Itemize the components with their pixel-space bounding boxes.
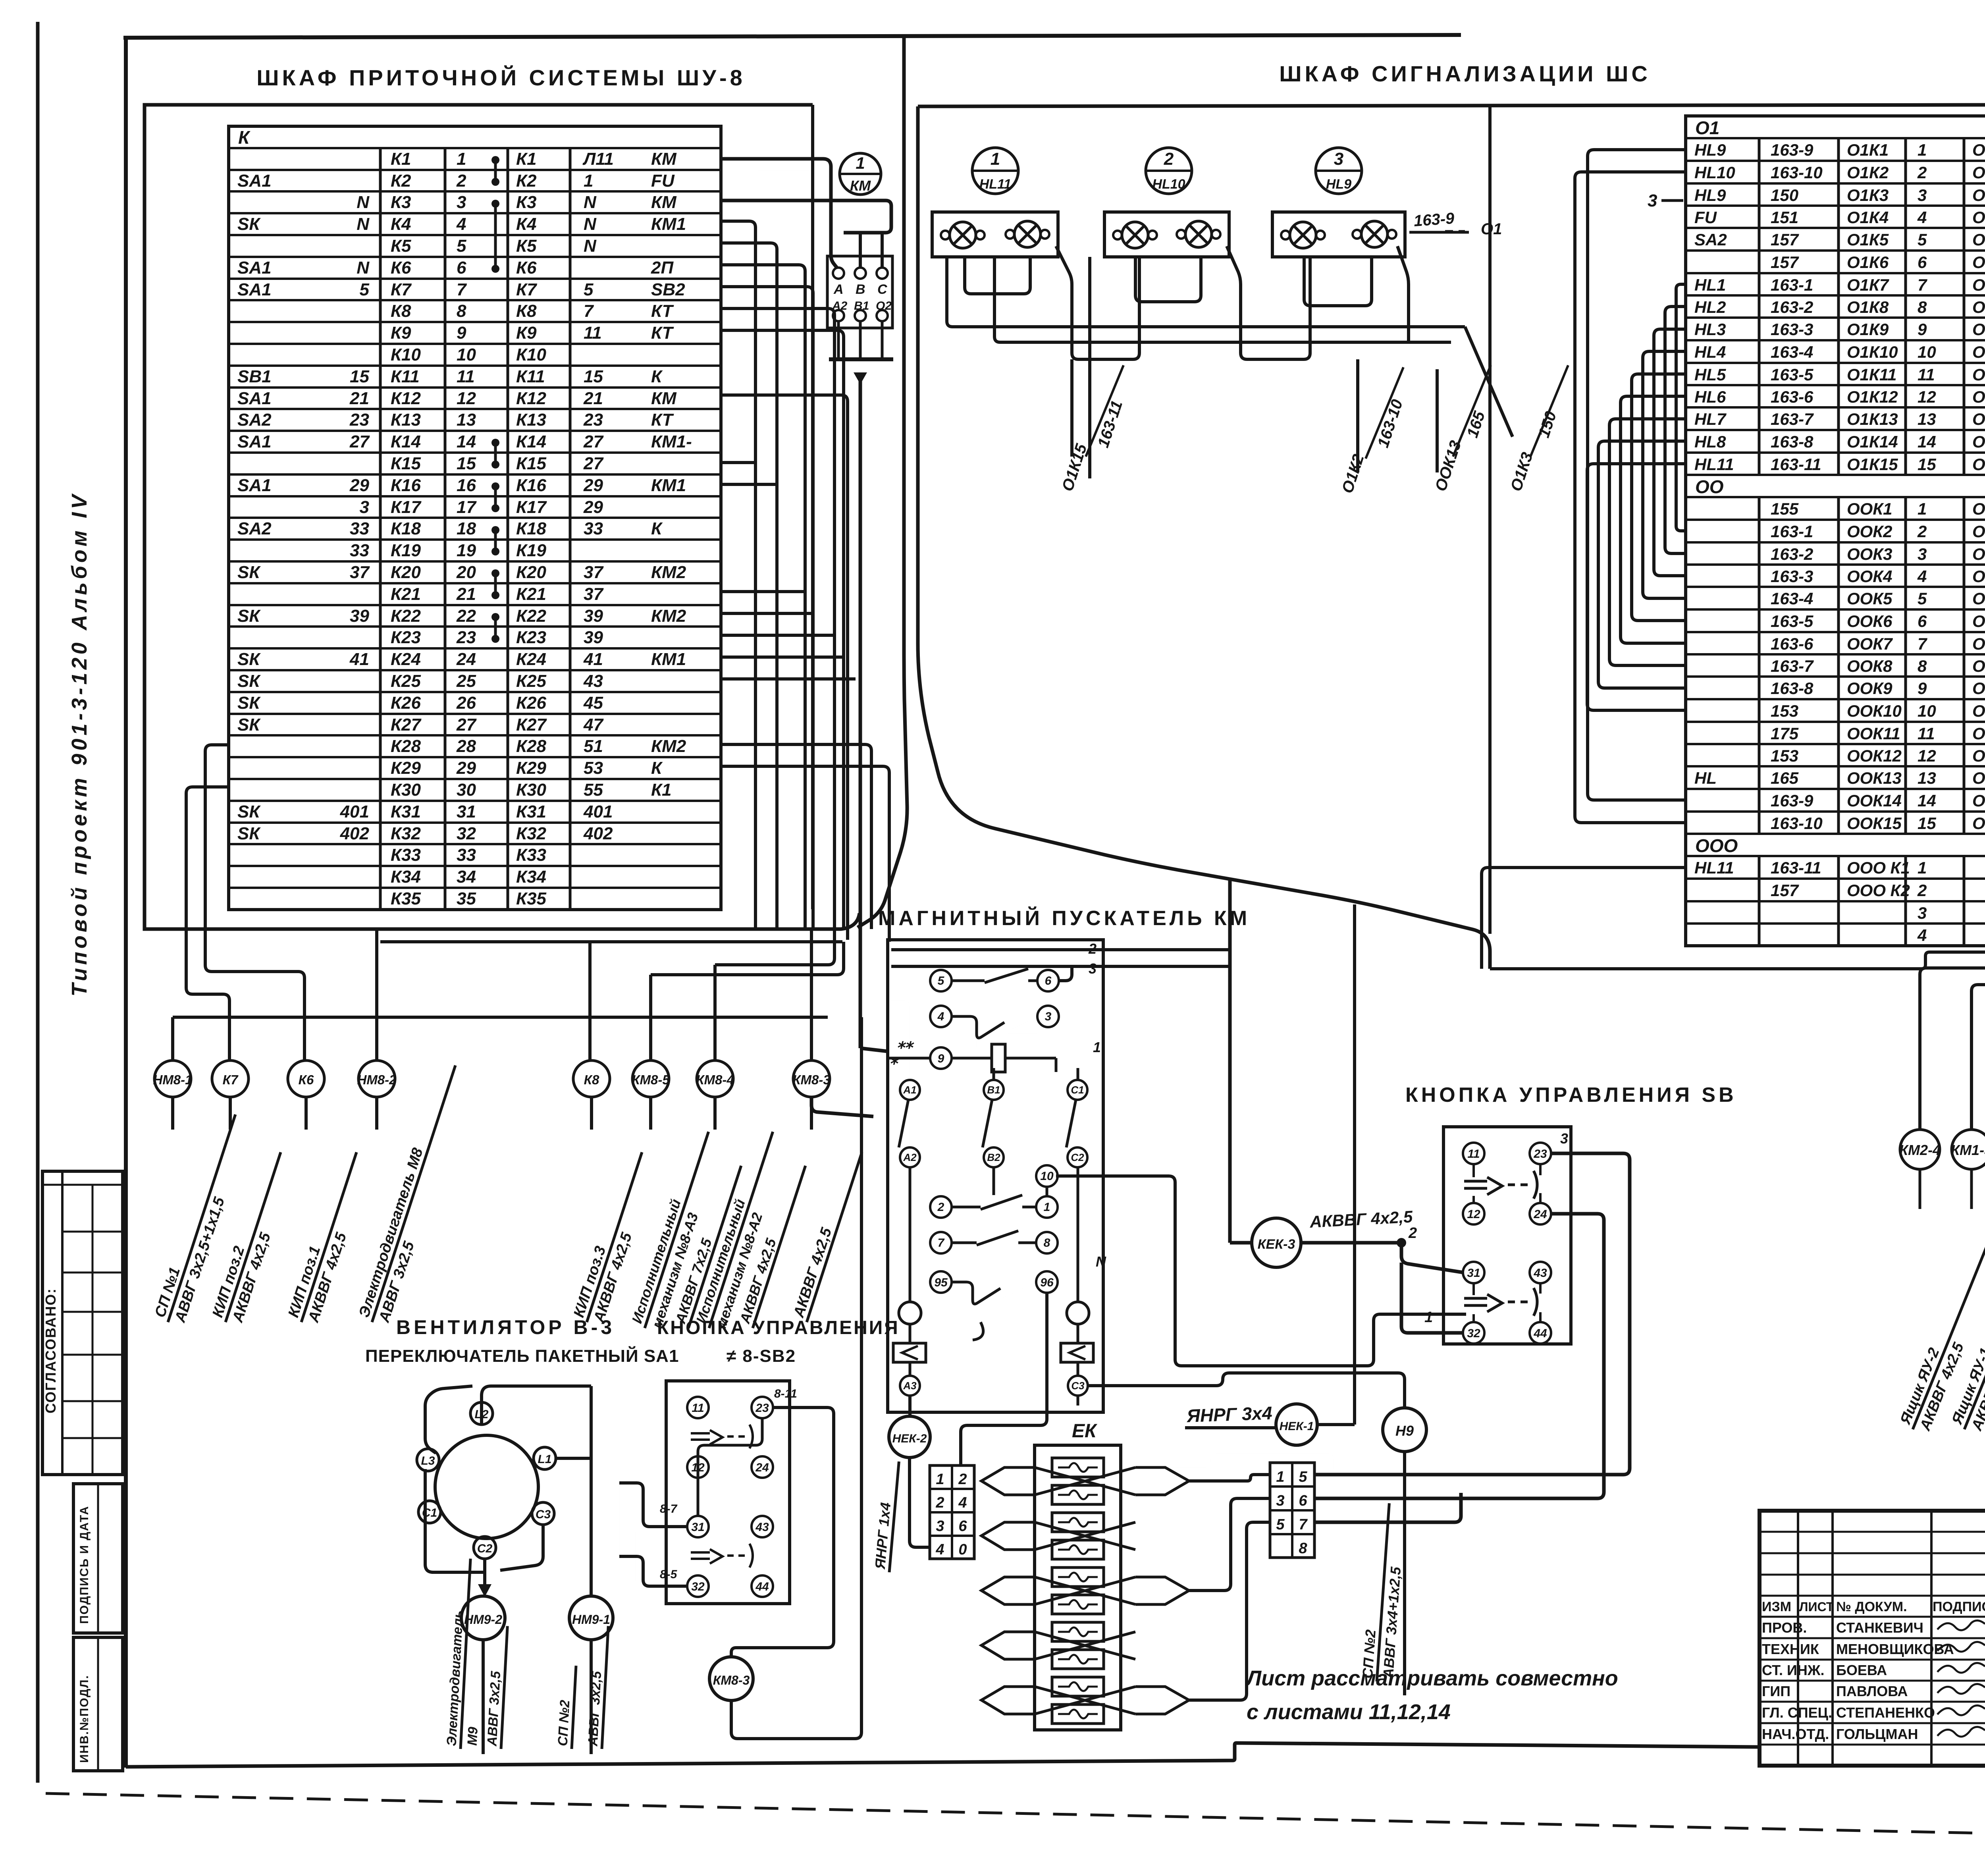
svg-text:15: 15 xyxy=(584,367,603,386)
svg-text:5: 5 xyxy=(360,280,370,299)
svg-text:SК: SК xyxy=(237,606,261,626)
svg-text:МЕНОВЩИКОВА: МЕНОВЩИКОВА xyxy=(1836,1641,1954,1657)
svg-text:ООК11: ООК11 xyxy=(1972,724,1985,743)
svg-text:О1: О1 xyxy=(1481,220,1502,238)
svg-text:К2: К2 xyxy=(516,171,537,191)
svg-text:К1: К1 xyxy=(516,149,537,169)
title KNOPKA UPRAVLENIYA SB xyxy=(1405,1084,1737,1107)
jumper links K-table xyxy=(491,156,499,643)
svg-text:8-7: 8-7 xyxy=(660,1502,678,1515)
svg-text:ООО К1: ООО К1 xyxy=(1847,858,1910,877)
svg-text:402: 402 xyxy=(340,824,370,843)
svg-text:К: К xyxy=(651,367,663,386)
svg-text:163-6: 163-6 xyxy=(1771,634,1813,653)
svg-text:3: 3 xyxy=(1045,1010,1052,1023)
svg-text:К9: К9 xyxy=(391,323,411,343)
svg-text:Л11: Л11 xyxy=(582,149,614,169)
svg-text:О1К1: О1К1 xyxy=(1847,141,1889,159)
svg-text:157: 157 xyxy=(1771,253,1799,272)
svg-text:ООК8: ООК8 xyxy=(1847,657,1892,675)
svg-text:О1К11: О1К11 xyxy=(1972,365,1985,384)
title MAGNITNY PUSKATEL KM xyxy=(878,906,1250,930)
svg-text:163-2: 163-2 xyxy=(1771,545,1813,563)
svg-text:95: 95 xyxy=(934,1276,948,1289)
svg-text:163-8: 163-8 xyxy=(1771,679,1813,698)
svg-text:0: 0 xyxy=(958,1541,967,1558)
svg-text:4: 4 xyxy=(1917,567,1927,586)
wires starter to SB button xyxy=(1047,1176,1466,1408)
svg-text:К27: К27 xyxy=(516,715,547,735)
svg-text:К18: К18 xyxy=(516,519,547,538)
svg-text:29: 29 xyxy=(583,476,603,495)
svg-text:30: 30 xyxy=(457,780,476,800)
svg-text:О1К2: О1К2 xyxy=(1847,163,1889,182)
svg-text:23: 23 xyxy=(456,628,476,647)
svg-text:К16: К16 xyxy=(391,476,421,495)
svg-text:С2: С2 xyxy=(1071,1151,1084,1163)
svg-text:12: 12 xyxy=(1918,388,1936,406)
svg-text:8: 8 xyxy=(1299,1540,1307,1557)
svg-text:О1К8: О1К8 xyxy=(1972,298,1985,316)
svg-text:150: 150 xyxy=(1771,186,1798,204)
svg-text:3: 3 xyxy=(1918,186,1927,204)
cable circle КМ8-4 with label Исполнительный механизм №8-А2 xyxy=(692,1060,806,1334)
svg-text:N: N xyxy=(357,258,370,278)
svg-text:К29: К29 xyxy=(391,758,421,778)
svg-text:N: N xyxy=(357,193,370,212)
svg-text:N: N xyxy=(584,236,597,256)
svg-text:ООК13: ООК13 xyxy=(1972,769,1985,787)
svg-text:15: 15 xyxy=(1918,814,1936,833)
cable circle N9 xyxy=(1359,1408,1426,1695)
header SHKAF SIGNALIZACII SHS xyxy=(1279,61,1651,86)
label 163-9 O1 at lamp3 xyxy=(1409,210,1502,238)
svg-text:17: 17 xyxy=(457,497,477,517)
svg-text:4: 4 xyxy=(456,214,466,234)
svg-text:В2: В2 xyxy=(987,1151,1000,1163)
svg-text:К30: К30 xyxy=(516,780,547,800)
svg-text:К1: К1 xyxy=(651,780,672,800)
svg-text:23: 23 xyxy=(755,1402,769,1415)
svg-text:163-9: 163-9 xyxy=(1413,210,1455,230)
svg-text:11: 11 xyxy=(1467,1147,1480,1161)
indicator lamp assembly 3/HL9 xyxy=(1272,148,1405,257)
svg-text:35: 35 xyxy=(457,889,476,908)
wire 96 to EK input block xyxy=(961,1292,1047,1465)
svg-text:47: 47 xyxy=(583,715,604,735)
svg-text:402: 402 xyxy=(583,824,613,843)
svg-text:43: 43 xyxy=(583,671,603,691)
wires table-left to K7 K6 xyxy=(186,745,304,1061)
svg-text:N: N xyxy=(584,193,597,212)
svg-text:О1К1: О1К1 xyxy=(1972,141,1985,159)
svg-text:10: 10 xyxy=(457,345,476,364)
svg-text:SA2: SA2 xyxy=(1694,230,1727,249)
svg-text:ООК12: ООК12 xyxy=(1972,746,1985,765)
cable circle К8 with label КИП поз.3 АКВВГ 4х2,5 xyxy=(570,1060,660,1328)
svg-text:1: 1 xyxy=(1918,499,1927,518)
svg-text:21: 21 xyxy=(349,389,369,408)
svg-text:ЛИСТ: ЛИСТ xyxy=(1799,1600,1834,1614)
svg-text:6: 6 xyxy=(1918,612,1927,630)
svg-text:163-1: 163-1 xyxy=(1771,276,1813,294)
svg-text:24: 24 xyxy=(1533,1208,1547,1221)
svg-text:163-4: 163-4 xyxy=(1771,343,1813,361)
svg-text:К20: К20 xyxy=(391,563,421,582)
svg-text:ПАВЛОВА: ПАВЛОВА xyxy=(1836,1683,1908,1699)
svg-text:HL5: HL5 xyxy=(1694,365,1726,384)
svg-text:2: 2 xyxy=(935,1494,944,1511)
cabinet SHS inner left edge xyxy=(1488,106,1492,934)
label 3 with dash at row O1K3 xyxy=(1648,191,1683,210)
svg-text:МАГНИТНЫЙ ПУСКАТЕЛЬ КМ: МАГНИТНЫЙ ПУСКАТЕЛЬ КМ xyxy=(878,906,1250,930)
svg-text:11: 11 xyxy=(1918,724,1935,743)
svg-text:К24: К24 xyxy=(391,650,421,669)
svg-text:37: 37 xyxy=(584,584,604,604)
svg-text:⁎: ⁎ xyxy=(890,1050,899,1068)
svg-text:11: 11 xyxy=(692,1402,704,1415)
svg-text:К10: К10 xyxy=(516,345,547,364)
svg-text:В: В xyxy=(856,282,865,297)
svg-text:КТ: КТ xyxy=(651,410,674,430)
svg-text:7: 7 xyxy=(1918,634,1927,653)
svg-text:163-10: 163-10 xyxy=(1771,814,1823,833)
svg-text:КМ: КМ xyxy=(651,389,677,408)
svg-text:15: 15 xyxy=(1918,455,1936,474)
svg-text:К8: К8 xyxy=(391,301,411,321)
svg-text:ИЗМ: ИЗМ xyxy=(1762,1599,1791,1614)
svg-text:2: 2 xyxy=(937,1201,944,1214)
sheet bottom rough edge xyxy=(46,1793,1985,1845)
svg-text:13: 13 xyxy=(1918,410,1936,428)
svg-text:8-11: 8-11 xyxy=(774,1387,797,1400)
svg-text:КМ1-: КМ1- xyxy=(651,432,692,451)
svg-text:К17: К17 xyxy=(391,497,422,517)
svg-text:О1К15: О1К15 xyxy=(1972,455,1985,474)
svg-text:К24: К24 xyxy=(516,650,546,669)
svg-text:165: 165 xyxy=(1771,769,1799,787)
svg-text:Н9: Н9 xyxy=(1395,1423,1414,1439)
cable circle КМ2-4 with label Ящик ЯУ-2 xyxy=(1896,1130,1985,1436)
svg-text:155: 155 xyxy=(1771,499,1799,518)
lamp interconnection bus 1 xyxy=(947,257,1465,327)
svg-text:КМ1: КМ1 xyxy=(651,650,686,669)
heater element block EK xyxy=(1035,1445,1121,1730)
svg-text:ПОДПИСЬ: ПОДПИСЬ xyxy=(1933,1599,1985,1614)
svg-text:4: 4 xyxy=(935,1541,944,1558)
svg-text:ООО: ООО xyxy=(1695,835,1738,856)
svg-text:⁎⁎: ⁎⁎ xyxy=(897,1034,914,1052)
terminal table K (left cabinet) xyxy=(229,126,721,910)
svg-text:1: 1 xyxy=(1918,858,1927,877)
svg-text:1: 1 xyxy=(936,1471,944,1488)
svg-text:ООК4: ООК4 xyxy=(1847,567,1892,586)
svg-text:К7: К7 xyxy=(391,280,412,299)
lamp group internal wires 2 xyxy=(1135,246,1310,359)
terminal table O1/OO/OOO (signal cabinet) xyxy=(1686,116,1985,946)
svg-text:11: 11 xyxy=(584,323,602,343)
svg-text:К34: К34 xyxy=(516,867,546,887)
svg-text:ГОЛЬЦМАН: ГОЛЬЦМАН xyxy=(1836,1726,1918,1742)
svg-text:3: 3 xyxy=(936,1518,944,1535)
svg-text:4: 4 xyxy=(1917,208,1927,227)
svg-text:НМ8-1: НМ8-1 xyxy=(153,1072,192,1087)
svg-text:О1К5: О1К5 xyxy=(1972,230,1985,249)
wire channels from K-table right edge xyxy=(721,160,889,942)
svg-text:HL3: HL3 xyxy=(1694,320,1726,339)
svg-text:К11: К11 xyxy=(391,367,420,386)
svg-text:163-3: 163-3 xyxy=(1771,320,1813,339)
svg-text:К15: К15 xyxy=(516,454,547,473)
svg-text:К28: К28 xyxy=(516,737,547,756)
svg-text:К29: К29 xyxy=(516,758,547,778)
svg-text:БОЕВА: БОЕВА xyxy=(1836,1662,1887,1678)
svg-text:39: 39 xyxy=(584,606,603,626)
svg-text:53: 53 xyxy=(584,758,603,778)
svg-text:К28: К28 xyxy=(391,737,421,756)
svg-text:157: 157 xyxy=(1771,230,1799,249)
svg-text:6: 6 xyxy=(457,258,466,278)
lamp group internal wires 1 xyxy=(965,246,1139,359)
svg-text:5: 5 xyxy=(1918,589,1927,608)
svg-text:Типовой проект 901-3-120: Типовой проект 901-3-120 Альбом IV xyxy=(67,492,91,997)
svg-text:2: 2 xyxy=(1917,522,1927,541)
svg-text:С2: С2 xyxy=(477,1542,493,1555)
svg-text:SA1: SA1 xyxy=(237,280,272,299)
svg-text:5: 5 xyxy=(457,236,466,256)
svg-text:163-10: 163-10 xyxy=(1771,163,1823,182)
cable circle НМ8-1 with label СП №1 АВВГ 3х2,5+1х1,5 xyxy=(151,1060,254,1328)
svg-text:В1: В1 xyxy=(987,1084,1000,1096)
svg-text:SA2: SA2 xyxy=(237,519,272,538)
SB2 external wiring and KM8-3 circle xyxy=(619,1017,861,1739)
drawing frame left edge xyxy=(124,38,128,1768)
svg-text:HL11: HL11 xyxy=(1694,455,1734,474)
indicator lamp assembly 2/HL10 xyxy=(1104,148,1229,257)
drawing frame bottom xyxy=(126,1743,1985,1767)
svg-text:≠ 8-SВ2: ≠ 8-SВ2 xyxy=(727,1346,796,1366)
svg-text:К21: К21 xyxy=(516,584,546,604)
svg-text:ООК3: ООК3 xyxy=(1972,545,1985,563)
svg-text:СТ. ИНЖ.: СТ. ИНЖ. xyxy=(1762,1662,1824,1678)
svg-text:КМ8-5: КМ8-5 xyxy=(632,1072,670,1087)
svg-text:33: 33 xyxy=(584,519,603,538)
indicator lamp assembly 1/HL11 xyxy=(932,148,1058,257)
svg-text:163-11: 163-11 xyxy=(1771,455,1821,474)
svg-text:7: 7 xyxy=(938,1236,945,1249)
svg-text:ООК6: ООК6 xyxy=(1972,612,1985,630)
svg-text:HL11: HL11 xyxy=(979,177,1012,192)
svg-text:КМ: КМ xyxy=(850,177,871,194)
svg-text:О1К10: О1К10 xyxy=(1972,343,1985,361)
svg-text:А3: А3 xyxy=(903,1380,917,1392)
svg-text:HL10: HL10 xyxy=(1152,177,1185,192)
svg-text:L1: L1 xyxy=(538,1453,551,1466)
svg-text:О1К6: О1К6 xyxy=(1847,253,1889,272)
svg-text:ООК5: ООК5 xyxy=(1972,589,1985,608)
svg-text:12: 12 xyxy=(1918,746,1936,765)
svg-text:8: 8 xyxy=(1044,1236,1050,1249)
svg-text:К32: К32 xyxy=(516,824,547,843)
svg-text:96: 96 xyxy=(1040,1276,1054,1289)
packet switch button 8-SB2 box xyxy=(660,1381,797,1604)
svg-text:1: 1 xyxy=(584,171,593,191)
svg-text:1: 1 xyxy=(457,149,466,169)
svg-text:SК: SК xyxy=(237,650,261,669)
svg-text:14: 14 xyxy=(1918,791,1936,810)
svg-text:О1К7: О1К7 xyxy=(1972,276,1985,294)
svg-text:HL4: HL4 xyxy=(1694,343,1726,361)
cable circle NEK-2 xyxy=(871,1396,930,1572)
svg-text:ИНВ.№ПОДЛ.: ИНВ.№ПОДЛ. xyxy=(78,1675,91,1763)
svg-text:К6: К6 xyxy=(391,258,411,278)
svg-text:К26: К26 xyxy=(516,693,547,713)
svg-text:33: 33 xyxy=(350,519,369,538)
svg-text:L2: L2 xyxy=(474,1408,488,1421)
svg-text:Лист рассматривать совместно: Лист рассматривать совместно xyxy=(1245,1666,1618,1690)
svg-text:К9: К9 xyxy=(516,323,537,343)
svg-text:С3: С3 xyxy=(1071,1380,1085,1392)
svg-text:14: 14 xyxy=(457,432,476,451)
svg-text:К14: К14 xyxy=(516,432,546,451)
svg-text:НЕК-1: НЕК-1 xyxy=(1280,1420,1314,1433)
bus risers to bottom circles xyxy=(377,929,844,1061)
svg-text:3: 3 xyxy=(1918,904,1927,922)
contactor KM circle label xyxy=(840,153,881,195)
svg-text:К19: К19 xyxy=(516,541,547,560)
svg-text:4: 4 xyxy=(937,1010,944,1023)
svg-text:SA1: SA1 xyxy=(237,476,272,495)
svg-text:К5: К5 xyxy=(516,236,537,256)
svg-text:1: 1 xyxy=(1918,141,1927,159)
svg-text:К18: К18 xyxy=(391,519,421,538)
svg-text:4: 4 xyxy=(1917,926,1927,945)
svg-text:5: 5 xyxy=(1918,230,1927,249)
svg-text:КМ2: КМ2 xyxy=(651,563,686,582)
svg-text:К8: К8 xyxy=(584,1072,599,1087)
svg-text:К6: К6 xyxy=(299,1072,314,1087)
lamp group internal wires 3 xyxy=(1304,246,1409,342)
svg-text:В1: В1 xyxy=(854,299,869,312)
svg-text:HL8: HL8 xyxy=(1694,432,1726,451)
svg-text:А: А xyxy=(833,282,844,297)
svg-text:НМ9-2: НМ9-2 xyxy=(464,1612,502,1627)
svg-text:2: 2 xyxy=(1408,1225,1417,1242)
svg-text:ООК15: ООК15 xyxy=(1847,814,1902,833)
svg-text:ООК9: ООК9 xyxy=(1847,679,1892,698)
svg-text:С: С xyxy=(877,282,887,297)
svg-text:О2: О2 xyxy=(876,299,892,312)
svg-text:НМ9-1: НМ9-1 xyxy=(572,1612,610,1627)
svg-text:СОГЛАСОВАНО:: СОГЛАСОВАНО: xyxy=(42,1288,59,1413)
connector block A B C / A2 B1 O2 xyxy=(827,256,892,328)
svg-text:8: 8 xyxy=(1918,657,1927,675)
svg-text:163-9: 163-9 xyxy=(1771,141,1813,159)
svg-text:21: 21 xyxy=(583,389,603,408)
title VENTILYATOR V-3 xyxy=(396,1316,615,1338)
svg-text:FU: FU xyxy=(651,171,675,191)
svg-text:8: 8 xyxy=(1918,298,1927,316)
svg-text:39: 39 xyxy=(584,628,603,647)
cable circle К7 with label КИП поз.2 АКВВГ 4х2,5 xyxy=(208,1060,299,1328)
connector bottom wires xyxy=(829,321,893,1051)
svg-text:SA1: SA1 xyxy=(237,389,272,408)
svg-text:11: 11 xyxy=(457,367,475,386)
svg-text:К14: К14 xyxy=(391,432,421,451)
svg-text:К33: К33 xyxy=(391,845,421,865)
svg-text:ООК14: ООК14 xyxy=(1972,791,1985,810)
svg-text:37: 37 xyxy=(584,563,604,582)
svg-text:401: 401 xyxy=(340,802,369,821)
header SHKAF PRITOCHNOY SISTEMY SHU-8 xyxy=(256,65,745,90)
svg-text:ОО: ОО xyxy=(1695,476,1724,497)
svg-text:О1К14: О1К14 xyxy=(1972,432,1985,451)
svg-text:К31: К31 xyxy=(516,802,546,821)
svg-text:SК: SК xyxy=(237,693,261,713)
svg-text:К20: К20 xyxy=(516,563,547,582)
svg-text:СТЕПАНЕНКО: СТЕПАНЕНКО xyxy=(1836,1704,1935,1721)
svg-text:О1К9: О1К9 xyxy=(1972,320,1985,339)
svg-text:43: 43 xyxy=(1533,1267,1547,1280)
stamp table podpis data inv xyxy=(73,1484,123,1771)
svg-text:ООК8: ООК8 xyxy=(1972,657,1985,675)
svg-text:24: 24 xyxy=(755,1461,769,1474)
bottom bus 1 (inner frame bottom reuse) xyxy=(380,940,842,943)
EK element cross wiring xyxy=(981,1467,1189,1714)
cable circle КМ8-5 with label Исполнительный механизм №8-А3 xyxy=(628,1060,741,1334)
svg-text:29: 29 xyxy=(583,497,603,517)
svg-text:163-7: 163-7 xyxy=(1771,410,1814,428)
svg-text:К11: К11 xyxy=(516,367,545,386)
svg-text:ООК9: ООК9 xyxy=(1972,679,1985,698)
svg-text:8: 8 xyxy=(457,301,466,321)
svg-text:ТЕХНИК: ТЕХНИК xyxy=(1762,1641,1819,1657)
svg-text:7: 7 xyxy=(457,280,467,299)
svg-text:15: 15 xyxy=(457,454,476,473)
svg-text:163-1: 163-1 xyxy=(1771,522,1813,541)
svg-text:ООК15: ООК15 xyxy=(1972,814,1985,833)
title PEREKLYUCHATEL PAKETNYI SA1 xyxy=(365,1346,679,1366)
svg-text:НЕК-2: НЕК-2 xyxy=(892,1432,927,1445)
svg-text:ООК7: ООК7 xyxy=(1847,634,1893,653)
svg-text:15: 15 xyxy=(350,367,369,386)
svg-text:31: 31 xyxy=(457,802,476,821)
svg-text:SA2: SA2 xyxy=(237,410,272,430)
svg-text:ООК11: ООК11 xyxy=(1847,724,1900,743)
svg-text:29: 29 xyxy=(456,758,476,778)
svg-text:С1: С1 xyxy=(1071,1084,1084,1096)
svg-text:К17: К17 xyxy=(516,497,547,517)
svg-text:163-3: 163-3 xyxy=(1771,567,1813,586)
svg-text:О1К4: О1К4 xyxy=(1972,208,1985,227)
svg-text:44: 44 xyxy=(1533,1327,1547,1340)
svg-text:41: 41 xyxy=(583,650,603,669)
svg-text:SA1: SA1 xyxy=(237,171,272,191)
svg-text:К31: К31 xyxy=(391,802,421,821)
svg-text:ООК10: ООК10 xyxy=(1847,702,1902,720)
svg-text:163-7: 163-7 xyxy=(1771,657,1814,675)
svg-text:К23: К23 xyxy=(516,628,546,647)
svg-text:7: 7 xyxy=(1918,276,1927,294)
svg-text:С3: С3 xyxy=(536,1508,551,1521)
svg-text:3: 3 xyxy=(1648,191,1657,210)
svg-text:О1К9: О1К9 xyxy=(1847,320,1889,339)
svg-text:С1: С1 xyxy=(422,1506,437,1519)
cabinet SHS left edge + wavy boundary xyxy=(918,106,1490,969)
svg-text:3: 3 xyxy=(1560,1130,1568,1147)
svg-text:9: 9 xyxy=(938,1052,944,1065)
svg-text:19: 19 xyxy=(457,541,476,560)
